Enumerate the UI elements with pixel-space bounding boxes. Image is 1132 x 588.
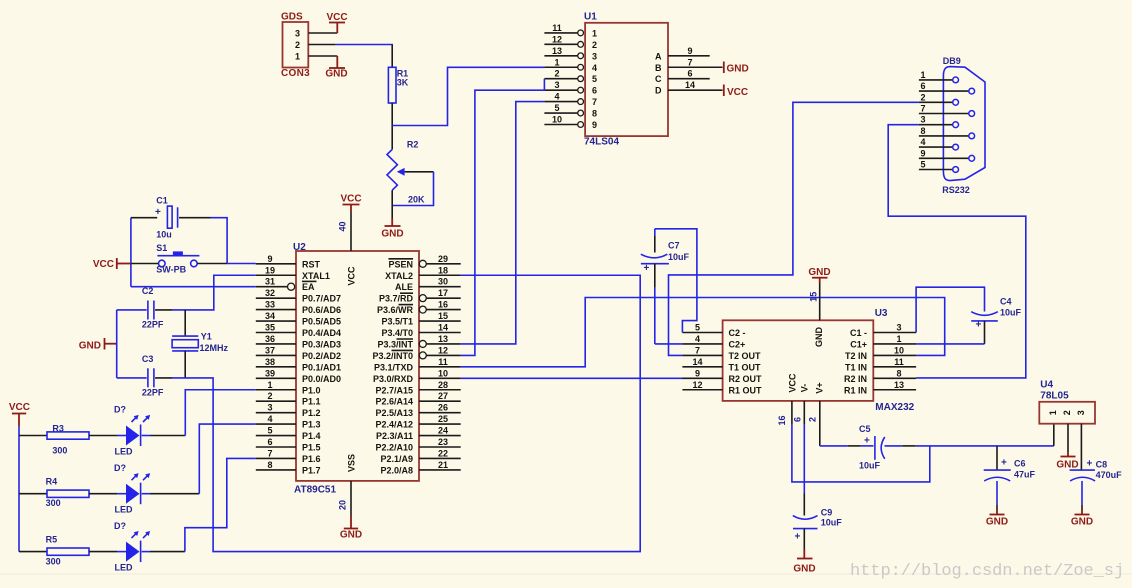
svg-text:P2.3/A11: P2.3/A11 (376, 431, 413, 441)
svg-text:C1 -: C1 - (850, 328, 867, 338)
svg-text:C2 -: C2 - (729, 328, 746, 338)
svg-text:P2.4/A12: P2.4/A12 (375, 420, 413, 430)
svg-text:7: 7 (592, 97, 597, 107)
wire U3 pin16 VCC (777, 401, 930, 482)
capacitor C1 (155, 195, 178, 239)
svg-text:CON3: CON3 (281, 68, 310, 79)
power VCC (U1 pin14 D) (724, 85, 748, 99)
power GND (U1 pin7 B) (724, 62, 749, 75)
svg-text:9: 9 (267, 254, 272, 264)
svg-text:GND: GND (808, 267, 830, 278)
svg-text:8: 8 (592, 109, 597, 119)
svg-text:1: 1 (295, 52, 300, 62)
svg-text:26: 26 (438, 403, 448, 413)
wire R4 to LED (89, 493, 117, 495)
svg-text:74LS04: 74LS04 (584, 137, 619, 148)
wire U2 pin20 (338, 481, 352, 529)
svg-text:P2.2/A10: P2.2/A10 (375, 443, 413, 453)
switch S1 SW-PB (156, 243, 199, 274)
svg-text:EA: EA (302, 282, 315, 292)
svg-text:20K: 20K (408, 194, 425, 204)
capacitor C9 (793, 508, 843, 559)
svg-text:35: 35 (265, 323, 275, 333)
svg-text:1: 1 (920, 70, 925, 80)
svg-text:6: 6 (920, 81, 925, 91)
svg-text:6: 6 (687, 69, 692, 79)
svg-text:9: 9 (592, 120, 597, 130)
svg-text:12: 12 (552, 34, 562, 44)
svg-text:2: 2 (808, 417, 818, 422)
svg-text:RST: RST (302, 259, 321, 269)
svg-text:RS232: RS232 (942, 185, 970, 195)
svg-text:P1.5: P1.5 (302, 443, 321, 453)
svg-text:U2: U2 (293, 242, 306, 253)
svg-text:34: 34 (265, 311, 275, 321)
svg-text:21: 21 (438, 460, 448, 470)
svg-text:10uF: 10uF (668, 252, 690, 262)
svg-text:C1: C1 (156, 195, 168, 205)
svg-text:LED: LED (115, 447, 134, 457)
connector DB9 RS232 (919, 56, 985, 195)
svg-text:5: 5 (920, 160, 925, 170)
svg-text:18: 18 (438, 265, 448, 275)
svg-text:12MHz: 12MHz (200, 343, 229, 353)
svg-text:11: 11 (552, 23, 562, 33)
svg-text:C1+: C1+ (850, 339, 867, 349)
svg-text:VCC: VCC (340, 194, 361, 205)
capacitor C2 (142, 286, 164, 329)
svg-text:P1.6: P1.6 (302, 454, 321, 464)
svg-text:16: 16 (438, 300, 448, 310)
power GND (below C9) (793, 559, 815, 575)
svg-text:P0.0/AD0: P0.0/AD0 (302, 374, 341, 384)
svg-text:3: 3 (554, 80, 559, 90)
svg-text:T1 OUT: T1 OUT (729, 362, 762, 372)
svg-text:10: 10 (894, 345, 904, 355)
svg-text:P3.1/TXD: P3.1/TXD (374, 362, 414, 372)
svg-text:P1.7: P1.7 (302, 465, 321, 475)
svg-text:13: 13 (894, 380, 904, 390)
wire U4 pin3 (1080, 424, 1082, 470)
wire U3 pin6 V- (793, 401, 805, 516)
svg-text:1: 1 (592, 28, 597, 38)
svg-text:MAX232: MAX232 (875, 402, 914, 413)
svg-text:D: D (655, 86, 662, 96)
svg-text:P1.1: P1.1 (302, 397, 321, 407)
svg-text:VCC: VCC (347, 266, 357, 286)
svg-text:4: 4 (554, 92, 559, 102)
wire DB9 pin2 to U3 T2OUT (669, 102, 919, 355)
svg-text:10: 10 (438, 368, 448, 378)
wire U3 pin15 (809, 278, 820, 321)
svg-text:P2.1/A9: P2.1/A9 (380, 454, 413, 464)
wire CON3 pin1 to GND (308, 56, 337, 68)
svg-text:40: 40 (338, 221, 348, 231)
resistor R1 (388, 67, 408, 103)
svg-text:4: 4 (267, 414, 272, 424)
svg-text:39: 39 (265, 368, 275, 378)
svg-text:R1 OUT: R1 OUT (729, 385, 763, 395)
capacitor C8 (1070, 459, 1123, 515)
svg-text:R3: R3 (52, 424, 64, 434)
svg-text:T1 IN: T1 IN (845, 362, 867, 372)
svg-text:8: 8 (267, 460, 272, 470)
svg-text:V+: V+ (815, 382, 825, 393)
svg-text:28: 28 (438, 380, 448, 390)
svg-text:C7: C7 (668, 241, 680, 251)
svg-text:VCC: VCC (326, 12, 347, 23)
svg-text:http://blog.csdn.net/Zoe_sj: http://blog.csdn.net/Zoe_sj (850, 562, 1124, 581)
power GND (below C8) (1071, 515, 1093, 528)
svg-text:P3.4/T0: P3.4/T0 (381, 328, 413, 338)
wire rail to R4 (19, 493, 47, 495)
svg-text:4: 4 (695, 334, 700, 344)
wire VCC junction to S1 left (131, 263, 159, 265)
svg-text:P1.4: P1.4 (302, 431, 321, 441)
svg-text:ALE: ALE (395, 282, 413, 292)
svg-text:17: 17 (438, 288, 448, 298)
wire S1 right to RST (197, 263, 256, 265)
svg-text:3: 3 (267, 403, 272, 413)
svg-text:+: + (644, 263, 650, 274)
svg-text:XTAL1: XTAL1 (302, 271, 330, 281)
svg-text:9: 9 (920, 148, 925, 158)
svg-text:+: + (795, 532, 801, 543)
power GND (U4 pin2) (1056, 457, 1078, 471)
svg-text:+: + (155, 207, 161, 218)
svg-text:11: 11 (438, 357, 448, 367)
power VCC (left rail) (9, 402, 30, 426)
wire C1 right to S1 right (179, 218, 227, 264)
svg-text:4: 4 (920, 137, 925, 147)
svg-text:GDS: GDS (281, 12, 303, 23)
svg-text:C8: C8 (1096, 459, 1108, 469)
svg-text:R2 IN: R2 IN (844, 374, 867, 384)
svg-text:3: 3 (896, 323, 901, 333)
svg-text:A: A (655, 51, 662, 61)
power GND (left of C2/C3) (79, 338, 117, 351)
svg-text:12: 12 (438, 345, 448, 355)
svg-text:B: B (655, 63, 662, 73)
svg-text:+: + (1001, 458, 1007, 469)
svg-text:R1 IN: R1 IN (844, 385, 867, 395)
capacitor C3 (142, 354, 164, 397)
svg-text:10u: 10u (156, 229, 172, 239)
wire C2/C3 ground rail (117, 310, 147, 378)
power VCC (U2 pin40) (340, 194, 361, 213)
svg-text:30: 30 (438, 277, 448, 287)
svg-text:6: 6 (592, 86, 597, 96)
svg-text:P3.0/RXD: P3.0/RXD (373, 374, 414, 384)
capacitor C4 (916, 287, 1021, 344)
svg-text:GND: GND (793, 564, 815, 575)
svg-text:8: 8 (896, 368, 901, 378)
wire +5V rail (916, 424, 1054, 446)
capacitor C7 (641, 229, 697, 344)
svg-text:U4: U4 (1040, 379, 1053, 390)
transceiver U3 MAX232 (682, 308, 916, 413)
wire LED2 to P1.3 (150, 424, 256, 494)
svg-text:R4: R4 (46, 476, 58, 486)
wire R1 to R2 (391, 103, 393, 149)
wire R3 to LED (89, 435, 117, 437)
svg-text:31: 31 (265, 277, 275, 287)
svg-text:P3.2/INT0: P3.2/INT0 (372, 351, 413, 361)
svg-text:23: 23 (438, 437, 448, 447)
svg-text:5: 5 (592, 74, 597, 84)
svg-text:3: 3 (592, 51, 597, 61)
wire node R1 top (391, 45, 393, 68)
svg-text:9: 9 (687, 46, 692, 56)
wire INT0 net (U2 pin12 to U1 pins 5,6) (461, 79, 545, 356)
svg-text:3: 3 (1076, 410, 1086, 415)
svg-text:3: 3 (920, 115, 925, 125)
svg-text:2: 2 (1062, 410, 1072, 415)
LED D? (LED2) (114, 463, 150, 515)
wire CON3 pin3 to VCC (308, 32, 337, 34)
svg-text:S1: S1 (156, 243, 167, 253)
svg-text:13: 13 (438, 334, 448, 344)
svg-text:25: 25 (438, 414, 448, 424)
svg-text:13: 13 (552, 46, 562, 56)
resistor R5 (46, 535, 89, 567)
svg-text:1: 1 (896, 334, 901, 344)
svg-text:300: 300 (46, 498, 61, 508)
svg-text:C: C (655, 74, 662, 84)
svg-text:15: 15 (438, 311, 448, 321)
svg-text:14: 14 (438, 323, 448, 333)
svg-text:GND: GND (381, 229, 403, 240)
svg-text:P3.5/T1: P3.5/T1 (381, 317, 413, 327)
svg-text:P3.7/RD: P3.7/RD (379, 294, 414, 304)
svg-text:2: 2 (295, 40, 300, 50)
svg-text:P3.3/INT: P3.3/INT (377, 339, 413, 349)
wire EA to VCC rail (131, 286, 256, 288)
svg-text:P0.4/AD4: P0.4/AD4 (302, 328, 341, 338)
svg-text:6: 6 (267, 437, 272, 447)
svg-text:P3.6/WR: P3.6/WR (377, 305, 414, 315)
svg-text:VCC: VCC (727, 87, 748, 98)
capacitor C6 (984, 446, 1036, 515)
svg-text:7: 7 (695, 345, 700, 355)
wire crystal bottom (184, 351, 186, 378)
svg-text:1: 1 (1048, 410, 1058, 415)
svg-text:7: 7 (267, 448, 272, 458)
svg-text:22: 22 (438, 448, 448, 458)
svg-text:32: 32 (265, 288, 275, 298)
watermark text (850, 562, 1124, 581)
svg-text:SW-PB: SW-PB (156, 264, 186, 274)
svg-text:P0.7/AD7: P0.7/AD7 (302, 294, 341, 304)
microcontroller U2 AT89C51 (256, 242, 461, 495)
svg-text:6: 6 (793, 417, 803, 422)
power GND (U3 pin15) (808, 267, 830, 278)
power GND (below C6) (986, 515, 1008, 528)
wire XTAL2 net (U2 pin18 around to C3) (172, 275, 640, 551)
svg-text:19: 19 (265, 265, 275, 275)
wire LED3 to P1.6 (150, 458, 256, 551)
svg-text:P2.7/A15: P2.7/A15 (375, 385, 413, 395)
svg-text:11: 11 (894, 357, 904, 367)
svg-text:C2: C2 (142, 286, 154, 296)
svg-text:LED: LED (115, 505, 134, 515)
svg-text:36: 36 (265, 334, 275, 344)
svg-text:D?: D? (114, 463, 126, 473)
svg-text:XTAL2: XTAL2 (385, 271, 413, 281)
svg-text:P2.6/A14: P2.6/A14 (375, 397, 413, 407)
svg-text:3K: 3K (397, 78, 409, 88)
svg-text:300: 300 (52, 445, 67, 455)
svg-text:5: 5 (695, 323, 700, 333)
svg-text:5: 5 (267, 426, 272, 436)
svg-text:P0.5/AD5: P0.5/AD5 (302, 317, 341, 327)
svg-text:P1.2: P1.2 (302, 408, 321, 418)
svg-text:AT89C51: AT89C51 (294, 484, 336, 495)
wire U2 pin40 (338, 212, 352, 251)
svg-text:R2: R2 (407, 139, 419, 149)
svg-text:D?: D? (114, 405, 126, 415)
faint horizontal rule (0, 573, 1132, 575)
wire crystal top (184, 310, 186, 336)
svg-text:C6: C6 (1014, 459, 1026, 469)
wire R2 junction to U1 pin4 (392, 67, 544, 125)
svg-text:GND: GND (325, 69, 347, 80)
power GND (below R2) (381, 226, 403, 240)
wire R5 to LED (89, 551, 117, 553)
power GND (U2 pin20) (340, 529, 362, 541)
resistor R4 (46, 476, 89, 508)
wire RXD net (U2 pin10 to U3 pin9) (461, 377, 683, 379)
svg-text:P0.2/AD2: P0.2/AD2 (302, 351, 341, 361)
svg-text:+: + (864, 436, 870, 447)
svg-text:C3: C3 (142, 354, 154, 364)
svg-text:10uF: 10uF (821, 518, 843, 528)
regulator U4 78L05 (1039, 379, 1095, 423)
power GND (below CON3) (325, 68, 347, 80)
wire C3 right (155, 377, 172, 379)
connector CON3 (GDS) (281, 12, 310, 79)
svg-text:2: 2 (554, 69, 559, 79)
svg-text:3: 3 (295, 29, 300, 39)
svg-text:P0.1/AD1: P0.1/AD1 (302, 362, 341, 372)
svg-text:GND: GND (727, 64, 749, 75)
svg-text:2: 2 (592, 40, 597, 50)
svg-text:1: 1 (554, 57, 559, 67)
svg-text:P2.5/A13: P2.5/A13 (375, 408, 413, 418)
wire XTAL1 net (C2 to U2 pin19) (155, 275, 256, 310)
svg-text:300: 300 (46, 557, 61, 567)
svg-text:38: 38 (265, 357, 275, 367)
svg-text:P0.6/AD6: P0.6/AD6 (302, 305, 341, 315)
LED D? (LED1) (114, 405, 150, 457)
svg-text:37: 37 (265, 345, 275, 355)
svg-text:VSS: VSS (347, 454, 357, 472)
svg-text:GND: GND (340, 530, 362, 541)
svg-text:29: 29 (438, 254, 448, 264)
svg-text:T2 IN: T2 IN (845, 351, 867, 361)
svg-text:P1.3: P1.3 (302, 420, 321, 430)
svg-text:Y1: Y1 (201, 331, 212, 341)
svg-text:12: 12 (692, 380, 702, 390)
svg-text:9: 9 (695, 368, 700, 378)
svg-text:16: 16 (777, 415, 787, 425)
power VCC (top of CON3) (326, 12, 347, 33)
svg-text:10uF: 10uF (859, 460, 881, 470)
svg-text:U3: U3 (875, 308, 888, 319)
svg-text:47uF: 47uF (1014, 470, 1036, 480)
svg-text:7: 7 (920, 104, 925, 114)
wire LED1 to P1.0 (150, 390, 256, 436)
svg-text:78L05: 78L05 (1040, 391, 1069, 402)
svg-text:GND: GND (1071, 517, 1093, 528)
svg-text:R2 OUT: R2 OUT (729, 374, 763, 384)
wire CON3 pin2 (308, 44, 393, 46)
svg-text:V-: V- (800, 384, 810, 393)
svg-text:VCC: VCC (93, 259, 114, 270)
svg-text:33: 33 (265, 300, 275, 310)
svg-text:VCC: VCC (9, 402, 30, 413)
svg-text:4: 4 (592, 63, 597, 73)
svg-text:PSEN: PSEN (388, 259, 413, 269)
svg-text:LED: LED (115, 563, 134, 573)
svg-text:GND: GND (986, 517, 1008, 528)
svg-text:470uF: 470uF (1096, 470, 1123, 480)
svg-text:27: 27 (438, 391, 448, 401)
svg-text:GND: GND (79, 340, 101, 351)
power VCC (left of S1) (93, 258, 131, 270)
svg-text:7: 7 (687, 57, 692, 67)
svg-text:22PF: 22PF (142, 320, 164, 330)
wire rail to R3 (19, 435, 47, 437)
svg-text:10: 10 (552, 115, 562, 125)
svg-text:C5: C5 (859, 424, 871, 434)
wire TXD net (U2 pin11 to U3 pin10) (461, 298, 945, 367)
svg-text:22PF: 22PF (142, 387, 164, 397)
svg-text:1: 1 (267, 380, 272, 390)
wire DB9 pin3 to U3 R2IN (888, 125, 1026, 378)
svg-text:C4: C4 (1000, 297, 1012, 307)
resistor R3 (47, 424, 89, 456)
svg-text:15: 15 (809, 292, 819, 302)
svg-text:+: + (1087, 459, 1093, 470)
op-amp U1 74LS04 (544, 11, 722, 147)
svg-text:P1.0: P1.0 (302, 385, 321, 395)
wire VCC rail vertical (18, 426, 20, 552)
wire U4 pin2 to GND (1067, 424, 1069, 457)
svg-text:GND: GND (1056, 460, 1078, 471)
svg-text:D?: D? (114, 521, 126, 531)
wire U3 pin2 V+ (808, 401, 820, 446)
LED D? (LED3) (114, 521, 150, 573)
svg-text:GND: GND (814, 327, 824, 348)
svg-text:10uF: 10uF (1000, 308, 1022, 318)
potentiometer R2 (387, 139, 434, 205)
svg-text:DB9: DB9 (943, 56, 961, 66)
wire reset loop left vertical (VCC to EA) (130, 218, 132, 287)
capacitor C5 (820, 424, 916, 471)
svg-text:C9: C9 (821, 508, 833, 518)
wire C1 top left (131, 217, 157, 219)
svg-text:R5: R5 (46, 535, 58, 545)
svg-text:VCC: VCC (788, 373, 798, 393)
svg-text:8: 8 (920, 126, 925, 136)
svg-text:+: + (976, 320, 982, 331)
svg-text:P0.3/AD3: P0.3/AD3 (302, 339, 341, 349)
wire R2 bottom (391, 190, 393, 226)
svg-text:2: 2 (267, 391, 272, 401)
wire INT net (U2 pin13 to U1 pin7) (461, 102, 545, 344)
crystal Y1 12MHz (172, 331, 228, 353)
